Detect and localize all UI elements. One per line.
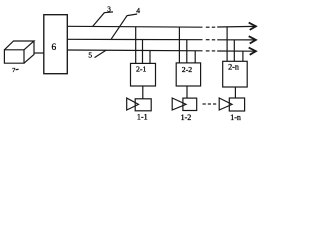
receiver block 2-1 [131,63,156,86]
transducer 1-1 (triangle + box) [127,98,152,111]
leader line of label 5 [95,50,107,57]
label 2-1 [136,65,146,74]
svg-text:5: 5 [88,51,92,60]
leader dash of label 7 [16,68,19,70]
leader line of label 4 [111,14,137,39]
svg-text:2-1: 2-1 [136,65,146,74]
drop wire bus3 to 2-1 [135,27,137,64]
drop wire bus3 to 2-n [226,27,228,61]
drop wire bus5 to 2-1 [149,51,151,64]
continuation dashes between 1-2 and 1-n [203,103,217,105]
label 2-n [228,63,239,72]
label 5 with leader [88,51,92,60]
drop wire bus4 to 2-2 [186,40,188,63]
svg-text:7: 7 [12,67,16,74]
arrowhead bus 4 [249,36,256,43]
label 6 [52,43,57,53]
svg-text:1-2: 1-2 [181,113,192,122]
arrowhead bus 3 [249,23,256,30]
wire from block 7 to block 6 [34,52,44,54]
drop wire bus5 to 2-2 [194,51,196,63]
power unit block 7 (3D box) [4,41,34,63]
label 7 [12,67,16,74]
transducer 1-2 (triangle + box) [172,98,197,111]
bus 3 (top line) [67,25,255,28]
arrowhead bus 5 [249,48,256,55]
svg-text:2-2: 2-2 [182,65,192,74]
leader line of label 3 [93,12,113,26]
label 1-n [230,113,241,122]
label 3 with leader [107,6,111,14]
transducer 1-n (triangle + box) [219,98,244,111]
svg-text:6: 6 [52,43,57,53]
receiver block 2-n [223,61,248,87]
svg-text:1-1: 1-1 [137,112,148,121]
drop wire bus5 to 2-n [242,51,244,61]
wire 2-n to 1-n [234,87,236,98]
svg-text:4: 4 [136,6,140,15]
label 1-1 [137,112,148,121]
receiver block 2-2 [176,63,200,86]
svg-text:2-n: 2-n [228,63,239,72]
wire 2-1 to 1-1 [142,86,144,99]
label 4 with leader [136,6,140,15]
drop wire bus4 to 2-n [233,40,235,61]
label 1-2 [181,113,192,122]
label 2-2 [182,65,192,74]
wire 2-2 to 1-2 [186,86,188,99]
drop wire bus4 to 2-1 [142,40,144,64]
svg-text:1-n: 1-n [230,113,241,122]
bus 5 (bottom line) [67,50,255,51]
drop wire bus3 to 2-2 [178,27,180,63]
bus 4 (middle line) [67,38,255,41]
control block 6 [44,15,68,74]
